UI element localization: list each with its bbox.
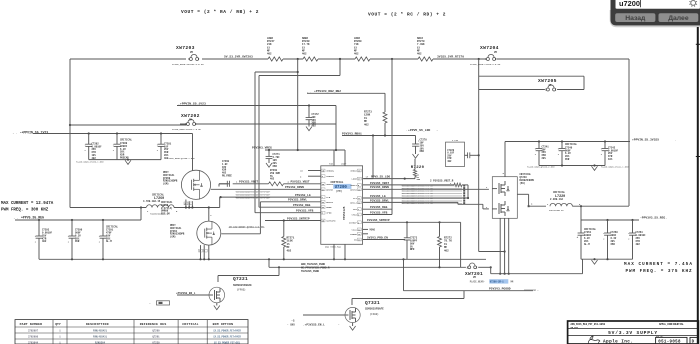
svg-text:SNTRIP: SNTRIP bbox=[349, 221, 358, 224]
svg-text:-PPV3V3_S5_REG.: -PPV3V3_S5_REG. bbox=[640, 217, 667, 220]
svg-text:402: 402 bbox=[302, 53, 307, 56]
svg-text:P3V3S5_DRVH: P3V3S5_DRVH bbox=[370, 186, 389, 189]
svg-text:MAX CURRENT = 12.947A: MAX CURRENT = 12.947A bbox=[1, 202, 54, 206]
wire PPVIN 3V3S5 rail bbox=[505, 141, 630, 143]
resistor R7271 bbox=[282, 221, 295, 260]
svg-text:SSM3K35FBAFE: SSM3K35FBAFE bbox=[365, 307, 384, 310]
svg-text:PPV5_S5_LDO: PPV5_S5_LDO bbox=[371, 176, 390, 179]
svg-text:PWM FREQ. = 300 KHZ: PWM FREQ. = 300 KHZ bbox=[1, 208, 49, 212]
wire Q7220 switch node out bbox=[517, 194, 549, 207]
wire PGND rail 2 bbox=[269, 259, 466, 268]
wire 5V output rail bbox=[70, 58, 629, 60]
search panel bbox=[611, 0, 700, 26]
capacitor C7240 bbox=[558, 140, 578, 165]
resistor R7248 bbox=[302, 37, 318, 61]
svg-text:402: 402 bbox=[267, 53, 272, 56]
wire Q7220 source stubs bbox=[499, 218, 510, 275]
wire PPVIN rail left bbox=[33, 133, 193, 135]
net label +PPV5_S5_REG bbox=[14, 216, 45, 221]
capacitor C7220 box bbox=[446, 139, 480, 167]
label XW7201 bbox=[465, 271, 483, 279]
svg-text:1X_S3_POWER_FET+PAIR: 1X_S3_POWER_FET+PAIR bbox=[213, 335, 241, 338]
svg-text:LDO5: LDO5 bbox=[352, 178, 358, 181]
capacitor C7280 bbox=[113, 132, 133, 159]
svg-text:RGG5: RGG5 bbox=[326, 206, 332, 209]
ground symbol C7270 bbox=[413, 154, 419, 158]
svg-text:P3V3S5_DRVL: P3V3S5_DRVL bbox=[370, 199, 389, 202]
svg-text:402: 402 bbox=[312, 125, 317, 128]
svg-text:2.2UH-14A: 2.2UH-14A bbox=[550, 198, 563, 201]
label MAX CURRENT 5V bbox=[1, 202, 54, 212]
svg-text:PLACE_NEAR-: PLACE_NEAR- bbox=[470, 281, 486, 284]
wire 3V3 reg rail bbox=[581, 219, 639, 221]
resistor R7270 bbox=[417, 37, 433, 61]
svg-text:Q7261: Q7261 bbox=[152, 335, 160, 338]
capacitor C7241 bbox=[535, 140, 549, 165]
wire tap RA jog bbox=[255, 71, 299, 213]
wire Q7260 source stubs bbox=[184, 200, 192, 208]
svg-text:PLACE_NEAR-C7241-1.5MM: PLACE_NEAR-C7241-1.5MM bbox=[601, 166, 629, 169]
svg-text:MAX CURRENT = 7.45A: MAX CURRENT = 7.45A bbox=[624, 262, 693, 267]
svg-text:+PPV5_S5_LDO: +PPV5_S5_LDO bbox=[408, 128, 430, 132]
capacitor C7290 bbox=[68, 220, 83, 259]
jumper XW7204 bbox=[485, 54, 497, 61]
wire 3V3 input cap gnd rail bbox=[539, 164, 605, 166]
svg-text:P5V3S3_DRVL: P5V3S3_DRVL bbox=[288, 199, 307, 202]
node junction bbox=[391, 58, 393, 60]
wire Q7221 drain path bbox=[218, 267, 279, 282]
svg-text:u7200: u7200 bbox=[619, 0, 640, 8]
net label +PPVIN_S5_3V3S5 bbox=[632, 139, 676, 142]
svg-text:402: 402 bbox=[42, 240, 47, 243]
wire tap RB2 jog bbox=[259, 58, 341, 207]
svg-text:Назад: Назад bbox=[625, 15, 646, 22]
wire VBST5 row with C7260 R7260 bbox=[219, 181, 321, 187]
svg-text:VO5F: VO5F bbox=[341, 163, 347, 166]
wire VREG5 row bbox=[265, 149, 345, 151]
ground symbol Q7321 bbox=[350, 323, 356, 331]
capacitor C7273 bbox=[404, 222, 418, 259]
wire Q7221 gate bbox=[176, 292, 209, 295]
search input bbox=[616, 0, 700, 9]
svg-text:4 PIN: 4 PIN bbox=[452, 139, 459, 142]
capacitor C7242 bbox=[601, 140, 619, 165]
jumper XW7203 bbox=[188, 54, 200, 61]
label MAX CURRENT 3V3 bbox=[624, 262, 693, 274]
svg-text:AL.M: AL.M bbox=[584, 243, 590, 246]
transistor Q7261 bbox=[170, 221, 221, 245]
note PLACE_NEAR U7200 highlighted bbox=[470, 279, 514, 283]
svg-text:2 P3V3S5_VBST_R: 2 P3V3S5_VBST_R bbox=[430, 180, 454, 183]
svg-text:P5V3V3_RB01: P5V3V3_RB01 bbox=[342, 132, 362, 135]
svg-text:-G: -G bbox=[291, 320, 295, 323]
title block bbox=[568, 321, 699, 344]
net label +PPVIN_S5_1V23 mid bbox=[178, 101, 206, 105]
svg-text:402: 402 bbox=[636, 243, 641, 246]
svg-text:BOM OPTION: BOM OPTION bbox=[213, 322, 234, 326]
svg-text:DRVL5: DRVL5 bbox=[326, 201, 333, 204]
svg-text:VBST3: VBST3 bbox=[350, 184, 357, 187]
wire L7260 output to reg rail bbox=[140, 208, 142, 221]
Apple logo bbox=[588, 336, 600, 344]
wire SNTRIP5 row bbox=[265, 219, 321, 221]
svg-text:PLACE_NEAR-C7202-1.5 MM: PLACE_NEAR-C7202-1.5 MM bbox=[172, 128, 201, 131]
svg-text:X5R: X5R bbox=[565, 158, 570, 161]
svg-text:P5V3S3_LG: P5V3S3_LG bbox=[295, 194, 311, 197]
svg-text:.: . bbox=[675, 139, 677, 142]
svg-text:P3V3S5_VFB: P3V3S5_VFB bbox=[370, 211, 388, 214]
svg-text:FUN(40343): FUN(40343) bbox=[93, 335, 108, 338]
svg-text:PLACE_NEAR-XW7203-2.5 MM: PLACE_NEAR-XW7203-2.5 MM bbox=[172, 63, 204, 66]
node junction bbox=[339, 58, 341, 60]
parts table bbox=[15, 320, 248, 344]
inductor L7220 bbox=[549, 191, 629, 212]
capacitor C7270 bbox=[412, 136, 427, 155]
ground symbol 3V3 output caps bbox=[592, 260, 598, 264]
svg-text:P3V3S5_RGG: P3V3S5_RGG bbox=[370, 206, 388, 209]
svg-text:(PM): (PM) bbox=[336, 190, 343, 193]
transistor Q7220 upper fet bbox=[492, 181, 509, 196]
resistor R7269 bbox=[354, 37, 370, 61]
svg-text:5V3V3S5_PGND: 5V3V3S5_PGND bbox=[301, 270, 320, 273]
svg-text:X5R: X5R bbox=[611, 243, 616, 246]
transistor Q7321 bbox=[345, 307, 360, 322]
capacitor C7282 bbox=[85, 132, 103, 160]
svg-text:+P5V3S3_EN_L: +P5V3S3_EN_L bbox=[176, 292, 196, 295]
net label +PPV5_S5_LDO bbox=[406, 128, 439, 132]
svg-text:402: 402 bbox=[444, 249, 449, 252]
wire VFB5 row bbox=[255, 212, 321, 214]
net label +P3V3S5_EN_L GND bbox=[287, 323, 340, 326]
svg-text:SNTRIP5: SNTRIP5 bbox=[326, 220, 336, 223]
search highlight U7200 bbox=[333, 184, 351, 190]
wire right loop vertical bbox=[628, 59, 630, 206]
svg-text:4.7UH-10A-15: 4.7UH-10A-15 bbox=[143, 200, 161, 203]
wire Q7261 source stubs bbox=[199, 245, 209, 259]
svg-text:2R-LOW-BOOST-Q7261-1:1 4M: 2R-LOW-BOOST-Q7261-1:1 4M bbox=[229, 226, 264, 229]
wire input loop to Q7220 bbox=[479, 251, 505, 253]
net label P5V3S3_VBST 2 bbox=[288, 181, 310, 184]
svg-text:LL5: LL5 bbox=[326, 196, 331, 199]
wire SNTRIP3 row bbox=[363, 219, 461, 267]
svg-text:- .: - . bbox=[13, 132, 18, 135]
label XW7202 bbox=[181, 113, 200, 122]
label Q7221 bbox=[233, 276, 252, 291]
svg-text:PLACE_NEAR-C7280-1.5MM: PLACE_NEAR-C7280-1.5MM bbox=[76, 161, 104, 164]
wire DRVH5 row bbox=[211, 188, 321, 190]
svg-text:PB_FREE: PB_FREE bbox=[222, 175, 232, 178]
svg-text:402: 402 bbox=[364, 123, 369, 126]
svg-text:Q7321: Q7321 bbox=[365, 300, 380, 306]
svg-text:VFB5: VFB5 bbox=[326, 212, 332, 215]
svg-text:+P5V3V3_RB2_RB2: +P5V3V3_RB2_RB2 bbox=[314, 90, 341, 93]
svg-text:P5V3S3_VBST: P5V3S3_VBST bbox=[239, 181, 258, 184]
wire XW7205 input loop bbox=[479, 59, 584, 252]
label XW7205 bbox=[538, 78, 557, 87]
svg-text:VOUT = (2 * RA / RB) + 2: VOUT = (2 * RA / RB) + 2 bbox=[181, 9, 259, 15]
label XW7203 bbox=[176, 45, 195, 54]
svg-text:402: 402 bbox=[270, 178, 275, 181]
label XW7204 bbox=[480, 45, 499, 54]
note PLACE_NEAR C7240 bbox=[527, 166, 629, 169]
capacitor C7372 bbox=[306, 104, 320, 127]
wire left loop vertical bbox=[69, 59, 71, 208]
wire LDO5 row bbox=[363, 176, 415, 180]
svg-text:+PPV5_S5_REG: +PPV5_S5_REG bbox=[21, 216, 44, 220]
ground symbol C7372 bbox=[306, 127, 312, 131]
svg-text:NPO: NPO bbox=[410, 248, 415, 251]
svg-text:PGM: PGM bbox=[329, 163, 334, 166]
svg-text:VOUT = (2 * RC / RD) + 2: VOUT = (2 * RC / RD) + 2 bbox=[368, 12, 446, 18]
search panel shadow bbox=[611, 10, 700, 27]
wire PGOOD stub bbox=[363, 233, 368, 235]
svg-text:QTY: QTY bbox=[55, 322, 61, 326]
svg-text:Q7221: Q7221 bbox=[233, 276, 248, 282]
svg-text:(GM): (GM) bbox=[163, 183, 169, 186]
U7200 right pin names bbox=[349, 170, 358, 242]
svg-text:VFB3: VFB3 bbox=[352, 214, 358, 217]
svg-text:POWERCHOKE GM: POWERCHOKE GM bbox=[150, 213, 166, 216]
transistor Q7220 box bbox=[492, 173, 534, 218]
search gear icon bbox=[689, 0, 697, 7]
net labels PGND bbox=[301, 263, 330, 273]
svg-text:5V3V3_PRO_EN: 5V3V3_PRO_EN bbox=[367, 236, 388, 239]
svg-text:-: - bbox=[537, 289, 539, 292]
wire DRVL3 row jog to Q7220 gate bbox=[363, 199, 489, 209]
wire Q7321 gate EN bbox=[303, 314, 345, 316]
net label +PPVIN_S5_1V23 left bbox=[13, 130, 49, 135]
wire tap RD bbox=[391, 59, 393, 215]
node junction bbox=[297, 58, 299, 60]
svg-text:3762998: 3762998 bbox=[28, 335, 39, 338]
svg-text:PART NUMBER: PART NUMBER bbox=[20, 322, 43, 326]
svg-text:APPLE_CONFIDENTIAL: APPLE_CONFIDENTIAL bbox=[659, 323, 684, 326]
wire PGND rail 5V bbox=[39, 258, 486, 260]
svg-text:TPS51125: TPS51125 bbox=[343, 206, 346, 220]
wire VCLK stub bbox=[363, 228, 376, 231]
jumper XW7202 bbox=[185, 119, 197, 126]
wire DRVL5 row bbox=[260, 201, 320, 203]
wire RGG5 row bbox=[259, 206, 321, 208]
ground symbol 3V3 input caps bbox=[592, 166, 598, 170]
svg-text:VREG3: VREG3 bbox=[350, 170, 357, 173]
svg-text:402: 402 bbox=[447, 160, 452, 163]
svg-text:X5R: X5R bbox=[420, 150, 425, 153]
transistor Q7220 lower fet bbox=[492, 201, 509, 216]
svg-text:Далее: Далее bbox=[668, 15, 689, 22]
svg-text:+PPVIN_S5_3V3S5: +PPVIN_S5_3V3S5 bbox=[632, 139, 659, 142]
svg-text:VCLK: VCLK bbox=[352, 228, 358, 231]
svg-text:P5V3S3_VBST: P5V3S3_VBST bbox=[291, 181, 310, 184]
wire cap ground rail bbox=[89, 159, 161, 161]
wire LG5 row bbox=[220, 196, 321, 198]
title revision box bbox=[690, 337, 698, 344]
capacitor C7271 bbox=[266, 150, 281, 168]
wire RB2 bbox=[307, 93, 385, 112]
svg-text:(FFA3): (FFA3) bbox=[370, 313, 379, 316]
svg-text:3762997: 3762997 bbox=[28, 329, 39, 332]
svg-text:FUN(40342): FUN(40342) bbox=[93, 329, 108, 332]
svg-text:PGOOD: PGOOD bbox=[350, 233, 357, 236]
capacitor C7253 bbox=[628, 220, 646, 259]
svg-text:20%: 20% bbox=[542, 157, 547, 160]
resistor R7273 bbox=[364, 111, 387, 136]
svg-text:GND THRM_PAD: GND THRM_PAD bbox=[325, 246, 341, 249]
svg-text:DESCRIPTION: DESCRIPTION bbox=[86, 322, 109, 326]
wire Q7220 drain bbox=[503, 142, 506, 177]
wire L7220 output down bbox=[580, 206, 582, 220]
parts table rows bbox=[28, 329, 241, 344]
svg-text:XW7205: XW7205 bbox=[538, 78, 557, 84]
wire 3V3 caps gnd rail bbox=[581, 258, 633, 260]
wire tap RB bbox=[297, 59, 299, 150]
resistor R7272 bbox=[438, 222, 453, 267]
svg-text:VREG5L: VREG5L bbox=[326, 170, 335, 173]
jumper XW7205 bbox=[545, 85, 557, 92]
svg-text:5V_S3_5YR_XW7203: 5V_S3_5YR_XW7203 bbox=[224, 56, 253, 59]
svg-text:P5V3V3_PGOOD: P5V3V3_PGOOD bbox=[489, 288, 511, 291]
svg-text:AL.M: AL.M bbox=[106, 240, 112, 243]
note snubber strikes 5V bbox=[236, 191, 271, 200]
capacitor C7250 bbox=[603, 220, 618, 259]
title drawing number box bbox=[656, 336, 687, 344]
wire PGND to Q7220 sources bbox=[491, 267, 583, 273]
U7200 bottom pins GND pad bbox=[325, 244, 346, 260]
svg-text:DRVH3: DRVH3 bbox=[350, 188, 357, 191]
svg-text:SSM3K35FBAFE: SSM3K35FBAFE bbox=[233, 284, 252, 287]
svg-text:XW7204: XW7204 bbox=[480, 45, 499, 51]
wire XW7202 to regulator bbox=[180, 123, 336, 125]
svg-text:REFERENCE DES: REFERENCE DES bbox=[140, 322, 167, 326]
wire Q7261 drain bbox=[209, 208, 213, 222]
svg-text:CHLPULUGE 4M: CHLPULUGE 4M bbox=[549, 209, 564, 212]
wire VREG3 row bbox=[342, 134, 416, 178]
note snubber strikes 3V3 bbox=[402, 185, 466, 206]
svg-text:-: - bbox=[149, 303, 151, 306]
wire PGOOD net bbox=[352, 259, 536, 305]
svg-text:(GM): (GM) bbox=[170, 236, 176, 239]
svg-text:(PA): (PA) bbox=[520, 182, 526, 185]
svg-text:PWM FREQ. = 375 KHZ: PWM FREQ. = 375 KHZ bbox=[626, 269, 693, 274]
svg-text:Apple Inc.: Apple Inc. bbox=[603, 340, 633, 344]
wire EN row bbox=[363, 236, 405, 239]
svg-text:DWG NO.: DWG NO. bbox=[656, 336, 664, 338]
net label +P5V3V3_RB2_RBX bbox=[307, 90, 341, 94]
search button back bbox=[615, 13, 655, 22]
svg-text:402: 402 bbox=[417, 53, 422, 56]
svg-text:P5V3S3_SNTRIP: P5V3S3_SNTRIP bbox=[287, 217, 310, 220]
svg-text:(FFA3): (FFA3) bbox=[237, 288, 246, 291]
search button next bbox=[659, 13, 699, 22]
svg-text:LL3: LL3 bbox=[353, 197, 358, 200]
jumper XW7201 bbox=[467, 263, 492, 269]
ground symbol Q7221 bbox=[214, 303, 220, 310]
wire VBST3 row with R7250 bbox=[363, 180, 470, 199]
wire Q7260 drain bbox=[192, 134, 194, 171]
svg-text:PLACE_NEAR-Q7260-1.5MM: PLACE_NEAR-Q7260-1.5MM bbox=[168, 157, 196, 160]
net label P5V3S3_VBST bbox=[236, 181, 258, 184]
wire VO3 row bbox=[363, 206, 392, 209]
svg-text:DRVL3: DRVL3 bbox=[350, 201, 357, 204]
svg-text:- GND: - GND bbox=[287, 324, 295, 327]
wire 5V reg rail bbox=[15, 219, 141, 221]
svg-text:P3V3S5_VBST: P3V3S5_VBST bbox=[370, 182, 389, 185]
label U7200 part bbox=[336, 190, 346, 220]
svg-text:P3V3S5_SNTRIP: P3V3S5_SNTRIP bbox=[367, 219, 390, 222]
svg-text:X5R: X5R bbox=[75, 240, 80, 243]
svg-text:1X_S3_POWER_FET+PAIR: 1X_S3_POWER_FET+PAIR bbox=[213, 329, 241, 332]
wire switch node 5V bbox=[70, 197, 220, 208]
transistor Q7260 bbox=[163, 170, 211, 199]
svg-text:10%: 10% bbox=[608, 158, 613, 161]
ground symbol input caps bbox=[76, 157, 195, 165]
svg-text:VBST5: VBST5 bbox=[326, 183, 333, 186]
resistor R7247 bbox=[267, 37, 283, 61]
svg-text:+: + bbox=[577, 236, 579, 239]
U7200 right pinboxes bbox=[357, 169, 361, 241]
sheet frame right border bbox=[696, 27, 700, 344]
U7200 upper left stubs bbox=[300, 170, 321, 179]
wire stub y125 bbox=[69, 124, 186, 126]
svg-text:U7200-2R-1: U7200-2R-1 bbox=[490, 281, 504, 284]
svg-text:3V3S5_5YR_R7270: 3V3S5_5YR_R7270 bbox=[437, 56, 464, 59]
svg-text:402: 402 bbox=[287, 249, 292, 252]
svg-text:402: 402 bbox=[354, 53, 359, 56]
svg-text:VO3: VO3 bbox=[353, 208, 358, 211]
svg-text:.+P3V3S5_EN_L: .+P3V3S5_EN_L bbox=[303, 323, 325, 326]
wire Q7261 gate bbox=[221, 202, 260, 234]
svg-text:.+PPVIN_S5_1V23: .+PPVIN_S5_1V23 bbox=[178, 101, 206, 105]
inductor L7260 bbox=[143, 193, 178, 215]
op-amp U7200 box bbox=[321, 166, 363, 245]
wire VFB3 row bbox=[363, 211, 392, 214]
svg-text:PLACE_NEAR-Q7220-2.5MM: PLACE_NEAR-Q7220-2.5MM bbox=[527, 166, 555, 169]
svg-text:5V/3.3V SUPPLY: 5V/3.3V SUPPLY bbox=[608, 330, 658, 336]
label Q7321 bbox=[365, 300, 384, 316]
wire DRVH3 row bbox=[363, 186, 489, 189]
wire PPVIN rail mid bbox=[177, 106, 336, 151]
U7200 left pinboxes bbox=[321, 169, 325, 222]
svg-text:PLACE_NEAR-L7220-2.5 MM: PLACE_NEAR-L7220-2.5 MM bbox=[470, 63, 501, 66]
svg-text:DRVH5: DRVH5 bbox=[326, 188, 333, 191]
svg-text:P5V3S3_RGG: P5V3S3_RGG bbox=[293, 204, 311, 207]
capacitor C7293 bbox=[35, 220, 53, 259]
U7200 left pin names bbox=[326, 170, 336, 223]
transistor Q7221 bbox=[209, 287, 225, 303]
capacitor C7291 bbox=[99, 220, 119, 259]
svg-text:05_PDF: 05_PDF bbox=[571, 326, 579, 329]
svg-text:CRITICAL: CRITICAL bbox=[553, 191, 566, 194]
capacitor C7281 bbox=[157, 132, 172, 160]
ground symbol C7271 bbox=[266, 163, 272, 167]
U7200 top pins bbox=[329, 150, 347, 166]
svg-text:P5V3S3_DRVH: P5V3S3_DRVH bbox=[285, 186, 304, 189]
svg-text:P3V3S5_LG: P3V3S5_LG bbox=[370, 195, 386, 198]
svg-text:Q7260: Q7260 bbox=[152, 329, 160, 332]
svg-text:P5V3S3_VFB: P5V3S3_VFB bbox=[296, 210, 314, 213]
resistor R7220 bbox=[411, 159, 425, 181]
svg-text:X5R: X5R bbox=[273, 165, 278, 168]
svg-text:R7220: R7220 bbox=[411, 166, 425, 170]
svg-text:CRITICAL: CRITICAL bbox=[182, 322, 198, 326]
capacitor C7251 bbox=[577, 220, 597, 259]
node junction bbox=[478, 58, 480, 60]
svg-text:XW7203: XW7203 bbox=[176, 45, 195, 51]
svg-text:MONO: MONO bbox=[370, 228, 376, 231]
wire LG3 row bbox=[363, 195, 468, 198]
net stub mark left of title block bbox=[524, 289, 539, 292]
svg-text:TONSEL: TONSEL bbox=[326, 175, 335, 178]
